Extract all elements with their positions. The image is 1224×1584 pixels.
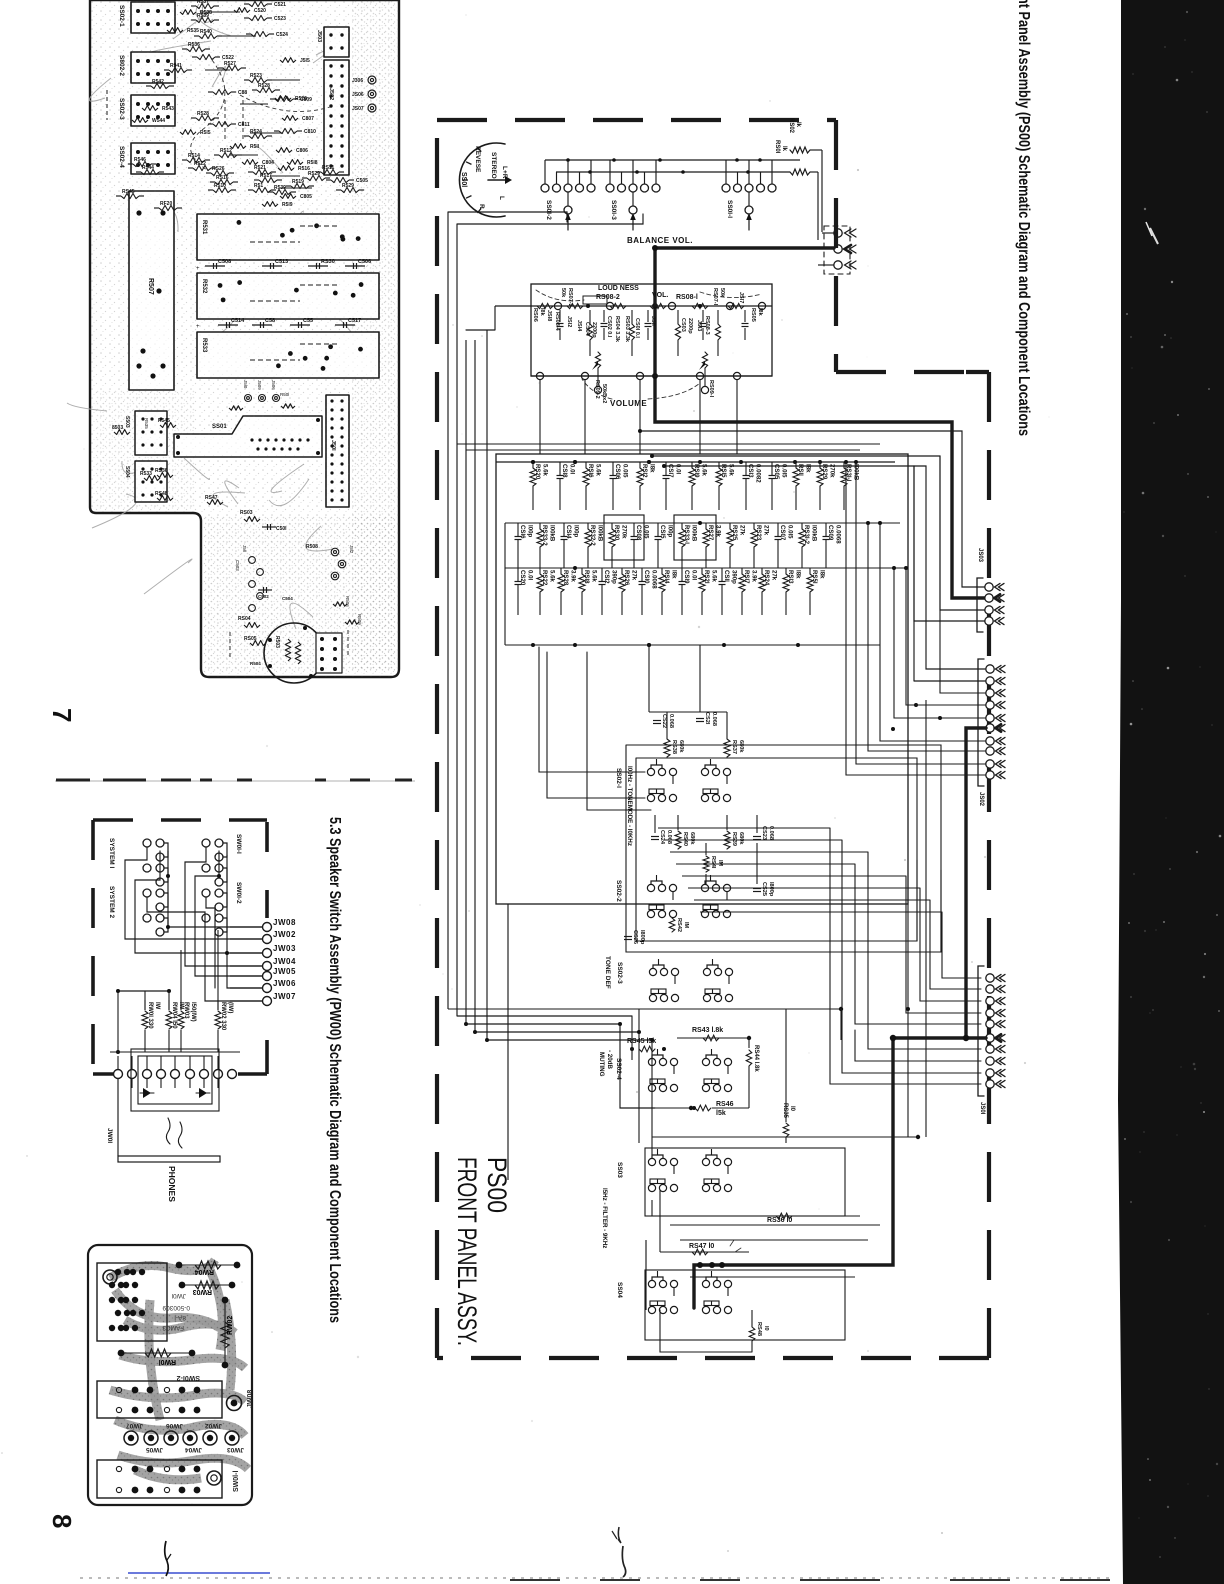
svg-text:270k: 270k: [621, 525, 628, 539]
svg-text:SW0l-l: SW0l-l: [233, 1471, 240, 1492]
svg-text:RS48: RS48: [756, 1322, 762, 1336]
svg-text:8: 8: [47, 1514, 77, 1528]
svg-text:5.6k: 5.6k: [542, 464, 549, 476]
svg-text:JSl4: JSl4: [576, 320, 582, 332]
svg-text:RS47 l0: RS47 l0: [689, 1243, 714, 1250]
svg-text:SYSTEM l: SYSTEM l: [108, 838, 115, 869]
svg-text:CS03: CS03: [680, 318, 686, 332]
svg-text:JS0l: JS0l: [979, 1102, 985, 1115]
svg-text:JW0l: JW0l: [106, 1128, 113, 1143]
svg-text:RS0l: RS0l: [774, 140, 780, 154]
svg-text:RSl3: RSl3: [787, 570, 794, 584]
svg-text:CS20: CS20: [519, 570, 526, 586]
svg-text:RS44 l.8k: RS44 l.8k: [753, 1045, 759, 1072]
svg-text:l00kB: l00kB: [549, 525, 556, 542]
svg-text:l800p: l800p: [768, 882, 774, 897]
svg-text:JW04: JW04: [273, 957, 296, 966]
svg-text:JW04: JW04: [185, 1446, 202, 1453]
svg-text:(lW): (lW): [227, 1002, 233, 1013]
svg-text:CS07: CS07: [779, 525, 786, 541]
svg-text:RS08-4: RS08-4: [554, 312, 560, 332]
svg-text:5.3 Speaker Switch Assembly (: 5.3 Speaker Switch Assembly (PW00) Schem…: [326, 817, 343, 1323]
svg-text:l5k: l5k: [716, 1110, 726, 1117]
svg-text:JW03: JW03: [227, 1446, 244, 1453]
svg-text:RSl2: RSl2: [641, 464, 648, 478]
svg-text:RSl4: RSl4: [663, 570, 670, 584]
svg-text:RSl8: RSl8: [583, 570, 590, 584]
svg-text:RS33-l: RS33-l: [683, 525, 690, 544]
svg-text:RS28: RS28: [562, 570, 569, 586]
svg-text:VOLUME: VOLUME: [610, 399, 647, 408]
svg-text:LOUD NESS: LOUD NESS: [598, 285, 639, 292]
svg-text:SS0l-3: SS0l-3: [610, 200, 617, 220]
svg-text:5.6k: 5.6k: [591, 570, 598, 582]
svg-text:0.0068: 0.0068: [651, 570, 658, 589]
svg-text:nt Panel Assembly (PS00) Schem: nt Panel Assembly (PS00) Schematic Diagr…: [1015, 0, 1032, 436]
svg-text:CS2l: CS2l: [704, 712, 710, 725]
svg-text:RS04 3.3k: RS04 3.3k: [614, 316, 620, 343]
svg-text:JS02: JS02: [978, 792, 984, 807]
svg-text:JW05: JW05: [273, 967, 296, 976]
svg-text:JW05: JW05: [146, 1446, 163, 1453]
svg-text:CS02 0.l: CS02 0.l: [606, 316, 612, 338]
svg-text:RS20: RS20: [534, 464, 541, 480]
svg-text:0.0068: 0.0068: [835, 525, 842, 544]
svg-text:CS25: CS25: [761, 882, 767, 896]
svg-text:l00p: l00p: [527, 525, 534, 537]
svg-text:SS02-4: SS02-4: [615, 1058, 622, 1080]
svg-text:RS09-2: RS09-2: [594, 380, 600, 399]
svg-text:SS0l: SS0l: [460, 172, 467, 187]
svg-text:CS09: CS09: [827, 525, 834, 541]
svg-text:l8k: l8k: [805, 464, 812, 473]
svg-text:680k: 680k: [689, 832, 695, 845]
svg-text:RS06: RS06: [532, 308, 538, 322]
svg-text:CS08: CS08: [635, 525, 642, 541]
svg-text:JW07: JW07: [126, 1422, 143, 1429]
svg-text:CSl9: CSl9: [683, 570, 690, 584]
svg-text:JW06: JW06: [273, 979, 296, 988]
svg-text:l50(lW): l50(lW): [190, 1002, 196, 1022]
svg-text:CS0l 0.l: CS0l 0.l: [634, 318, 640, 338]
svg-text:RS25: RS25: [731, 525, 738, 541]
svg-text:L+R: L+R: [501, 166, 508, 179]
svg-text:CSl4: CSl4: [565, 525, 572, 539]
svg-text:lk: lk: [795, 122, 801, 128]
svg-text:680k: 680k: [678, 740, 684, 753]
svg-text:RS08-3: RS08-3: [704, 316, 710, 335]
svg-text:RS02: RS02: [788, 118, 794, 134]
svg-text:RW04: RW04: [195, 1268, 214, 1275]
svg-text:SS02-l: SS02-l: [615, 768, 622, 788]
svg-text:CSl0: CSl0: [643, 570, 650, 584]
svg-text:0.0l5: 0.0l5: [787, 525, 794, 539]
svg-text:RS22: RS22: [541, 570, 548, 586]
svg-text:RS30: RS30: [613, 525, 620, 541]
svg-text:FAMC3: FAMC3: [162, 1324, 184, 1331]
svg-text:l00kB: l00kB: [811, 525, 818, 542]
svg-text:0.0l: 0.0l: [691, 570, 698, 580]
svg-text:0.068: 0.068: [666, 830, 672, 844]
svg-text:2200p: 2200p: [591, 322, 597, 338]
svg-text:5.6k: 5.6k: [595, 464, 602, 476]
svg-text:l00p: l00p: [667, 525, 674, 537]
svg-text:5.6k: 5.6k: [549, 570, 556, 582]
svg-text:RS4l: RS4l: [710, 856, 716, 869]
svg-text:BALANCE VOL.: BALANCE VOL.: [627, 236, 693, 245]
svg-text:RS2l: RS2l: [703, 570, 710, 584]
svg-text:R: R: [478, 204, 485, 209]
svg-text:CS26: CS26: [632, 930, 638, 944]
svg-text:680k: 680k: [738, 832, 744, 845]
svg-text:0.068: 0.068: [711, 712, 717, 726]
svg-text:RS42: RS42: [676, 918, 682, 932]
svg-text:JSll: JSll: [650, 316, 656, 326]
svg-text:RS32-2: RS32-2: [589, 525, 596, 546]
svg-text:RS40: RS40: [682, 832, 688, 846]
svg-text:SS02-2: SS02-2: [615, 880, 622, 902]
svg-text:SW0l-2: SW0l-2: [235, 882, 242, 904]
svg-text:l00p: l00p: [573, 525, 580, 537]
svg-text:0.0l: 0.0l: [527, 570, 534, 580]
svg-text:50k: 50k: [719, 288, 725, 298]
svg-text:CSl6: CSl6: [519, 525, 526, 539]
svg-text:0.0l: 0.0l: [569, 464, 576, 474]
svg-text:JSl8: JSl8: [546, 310, 552, 321]
svg-text:JW02: JW02: [205, 1422, 222, 1429]
svg-text:FRONT PANEL ASSY.: FRONT PANEL ASSY.: [452, 1157, 482, 1346]
svg-text:0-500309: 0-500309: [162, 1304, 190, 1311]
svg-text:2200p: 2200p: [687, 318, 693, 334]
svg-text:27k: 27k: [631, 570, 638, 581]
svg-text:JW03: JW03: [273, 944, 296, 953]
svg-text:390p: 390p: [611, 570, 618, 584]
svg-text:CS06: CS06: [614, 464, 621, 480]
svg-text:0.0082: 0.0082: [755, 464, 762, 483]
svg-text:RS43 l.8k: RS43 l.8k: [692, 1027, 723, 1034]
svg-text:RW02: RW02: [227, 1316, 234, 1335]
svg-text:7: 7: [47, 708, 77, 722]
svg-text:RS23: RS23: [755, 525, 762, 541]
svg-text:l800p: l800p: [639, 930, 645, 945]
svg-text:SS04: SS04: [616, 1282, 623, 1298]
svg-text:VOL.: VOL.: [652, 292, 668, 299]
svg-text:RS38: RS38: [671, 740, 677, 754]
svg-text:STEREO: STEREO: [490, 152, 497, 179]
svg-text:RS07-l: RS07-l: [712, 288, 718, 306]
svg-text:lk: lk: [781, 146, 787, 152]
svg-text:RS37: RS37: [731, 740, 737, 754]
svg-text:SW0l-l: SW0l-l: [235, 834, 242, 854]
svg-text:RS33-2: RS33-2: [541, 525, 548, 546]
svg-text:JSl2: JSl2: [566, 316, 572, 327]
svg-text:RS27: RS27: [707, 525, 714, 541]
svg-text:JW08: JW08: [273, 918, 296, 927]
svg-text:27k: 27k: [739, 525, 746, 536]
svg-text:8A-l: 8A-l: [174, 1314, 186, 1321]
svg-text:50k: 50k: [560, 288, 566, 298]
svg-text:27k: 27k: [771, 570, 778, 581]
svg-text:RW0l 330: RW0l 330: [147, 1002, 153, 1029]
svg-text:JS03: JS03: [977, 548, 983, 563]
svg-text:RS5l: RS5l: [811, 570, 818, 584]
svg-text:CS04: CS04: [584, 322, 590, 337]
svg-text:l5Hz - FILTER - 9KHz: l5Hz - FILTER - 9KHz: [601, 1188, 608, 1248]
svg-text:RS39: RS39: [731, 832, 737, 846]
svg-text:RS26: RS26: [623, 570, 630, 586]
svg-text:0.068: 0.068: [668, 714, 674, 728]
svg-text:50kBx2: 50kBx2: [601, 384, 607, 403]
svg-text:SS0l-l: SS0l-l: [726, 200, 733, 218]
svg-text:L: L: [498, 196, 505, 200]
svg-text:RS24: RS24: [763, 570, 770, 586]
svg-text:RS08-2: RS08-2: [596, 294, 620, 301]
svg-text:PHONES: PHONES: [167, 1166, 177, 1202]
svg-text:27k: 27k: [763, 525, 770, 536]
svg-text:l8k: l8k: [757, 308, 763, 317]
svg-text:lW: lW: [154, 1002, 160, 1010]
svg-text:l8k: l8k: [539, 308, 545, 317]
svg-text:3.9k: 3.9k: [751, 570, 758, 582]
svg-text:SS03: SS03: [616, 1162, 623, 1178]
svg-text:390p: 390p: [731, 570, 738, 584]
svg-text:SYSTEM 2: SYSTEM 2: [108, 886, 115, 919]
svg-text:l00kB: l00kB: [691, 525, 698, 542]
svg-text:CSl8: CSl8: [561, 464, 568, 478]
svg-text:RW03: RW03: [193, 1288, 212, 1295]
svg-text:l8k: l8k: [649, 464, 656, 473]
svg-text:3.9k: 3.9k: [570, 570, 577, 582]
svg-text:SW0l-2: SW0l-2: [177, 1374, 200, 1381]
svg-text:SS02-3: SS02-3: [616, 962, 623, 984]
svg-text:RS05: RS05: [750, 308, 756, 322]
svg-text:RSl7: RSl7: [743, 570, 750, 584]
svg-text:RW0l: RW0l: [159, 1358, 176, 1365]
svg-text:JW0l: JW0l: [171, 1292, 186, 1299]
svg-text:RS46: RS46: [716, 1101, 734, 1108]
svg-text:l0: l0: [789, 1106, 795, 1112]
svg-text:RS3l-2: RS3l-2: [803, 525, 810, 545]
svg-text:RS03 3.3k: RS03 3.3k: [624, 316, 630, 343]
svg-text:JW07: JW07: [273, 992, 296, 1001]
svg-text:MUTING: MUTING: [598, 1052, 605, 1077]
svg-text:RS07-2: RS07-2: [567, 288, 573, 307]
svg-text:RS08-l: RS08-l: [676, 294, 698, 301]
svg-text:RW03: RW03: [183, 1002, 189, 1019]
svg-text:lM: lM: [683, 922, 689, 929]
svg-text:RW02 330: RW02 330: [220, 1002, 226, 1031]
svg-text:RSl6: RSl6: [587, 464, 594, 478]
svg-text:CSl5: CSl5: [659, 525, 666, 539]
svg-text:JW02: JW02: [273, 930, 296, 939]
svg-text:SS0l-2: SS0l-2: [545, 200, 552, 220]
svg-text:680k: 680k: [738, 740, 744, 753]
svg-text:0.0l5: 0.0l5: [622, 464, 629, 478]
svg-text:l00Hz - TONEMODE - l0KHz: l00Hz - TONEMODE - l0KHz: [626, 766, 633, 846]
svg-text:l0: l0: [763, 1326, 769, 1331]
svg-text:- 20dB: - 20dB: [606, 1050, 613, 1069]
svg-text:5.6k: 5.6k: [711, 570, 718, 582]
svg-text:RW04 l50: RW04 l50: [171, 1002, 177, 1029]
svg-text:JW08: JW08: [247, 1390, 254, 1408]
svg-text:RS09-l: RS09-l: [708, 380, 714, 398]
svg-text:lM: lM: [717, 860, 723, 867]
svg-text:CS22: CS22: [661, 714, 667, 728]
svg-text:JW06: JW06: [166, 1422, 183, 1429]
svg-text:l00kB: l00kB: [597, 525, 604, 542]
svg-text:CSl2: CSl2: [603, 570, 610, 584]
svg-text:TONE DEF: TONE DEF: [604, 956, 611, 989]
svg-text:l8k: l8k: [795, 570, 802, 579]
svg-text:REVESE: REVESE: [474, 146, 481, 173]
svg-text:CS24: CS24: [659, 830, 665, 845]
svg-text:JSl3: JSl3: [696, 320, 702, 331]
svg-text:l8k: l8k: [671, 570, 678, 579]
svg-text:l8k: l8k: [819, 570, 826, 579]
svg-text:JSl7: JSl7: [738, 292, 744, 303]
svg-text:RS35: RS35: [782, 1103, 788, 1119]
svg-text:CSll: CSll: [723, 570, 730, 582]
